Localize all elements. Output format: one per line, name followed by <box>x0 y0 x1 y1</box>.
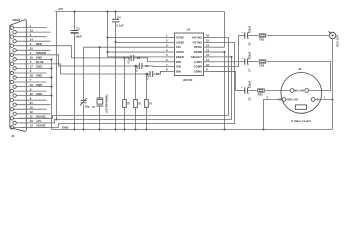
svg-text:RED: RED <box>36 42 42 46</box>
wire +5V to DPOS <box>214 12 225 48</box>
U1 pin 1 STND <box>165 34 184 40</box>
U1 pin 3 FIN <box>165 43 181 49</box>
J2 key slot <box>296 105 307 109</box>
capacitor C8 220uF chroma <box>240 80 251 100</box>
svg-text:CRMA: CRMA <box>194 69 202 73</box>
J1 pin 4 GREEN <box>10 51 48 56</box>
svg-text:GND LUM: GND LUM <box>287 99 298 102</box>
svg-text:DPOS: DPOS <box>194 45 202 49</box>
wire GREEN to U1 <box>142 65 165 68</box>
J2 pin 2 gnd <box>282 98 286 102</box>
wire FIN to crystal <box>84 46 165 48</box>
wire COMP output <box>214 36 241 67</box>
svg-text:AGND: AGND <box>176 40 184 44</box>
connector J2 S-Video shell <box>281 73 322 114</box>
wire RED input <box>49 46 132 58</box>
junction SELECT bend <box>231 56 233 58</box>
J1 pin 9 <box>10 96 46 102</box>
svg-text:220uF: 220uF <box>249 25 252 33</box>
junction GND row 7 <box>51 58 53 60</box>
svg-text:RCA OUT: RCA OUT <box>335 34 339 46</box>
svg-text:S-Video (4-pin): S-Video (4-pin) <box>291 119 311 123</box>
svg-text:ENCD: ENCD <box>176 55 184 59</box>
wire GND bus <box>52 129 333 131</box>
svg-text:C1: C1 <box>76 26 80 30</box>
J1 pin 8 <box>10 87 46 92</box>
svg-text:0.1uF: 0.1uF <box>117 24 125 28</box>
junction C4 top <box>115 11 117 13</box>
J2 pin 4 chroma <box>290 89 294 93</box>
wire +5V riser from pin 23 <box>56 12 58 120</box>
svg-text:HSYNC: HSYNC <box>192 36 202 40</box>
capacitor C5 0.1uF <box>146 71 160 80</box>
junction GND row 15 <box>51 95 53 97</box>
U1 pin 10 COMP <box>194 63 214 69</box>
wire BLUE to U1 <box>153 71 165 74</box>
junction APOS feed <box>107 51 109 53</box>
wire J2 gnd pin 2 <box>264 100 283 130</box>
svg-text:J1: J1 <box>11 134 15 138</box>
wire trimmer column <box>83 47 85 129</box>
trimmer capacitor CT 30p <box>80 98 96 109</box>
U1 pin 4 APOS <box>165 48 185 54</box>
connector J1 DB23 outline <box>10 20 27 132</box>
svg-text:BLUE: BLUE <box>36 60 44 64</box>
svg-text:FB3: FB3 <box>258 93 263 97</box>
junction +5V riser <box>56 119 58 121</box>
resistor R2 75R <box>134 66 142 130</box>
svg-text:VSYNC: VSYNC <box>192 40 202 44</box>
J1 pin 19 GND <box>13 83 49 89</box>
svg-text:17: 17 <box>30 65 34 69</box>
svg-text:GND: GND <box>36 83 42 87</box>
junction crystal ground <box>99 129 101 131</box>
junction FIN <box>99 46 101 48</box>
resistor R3 75R <box>145 74 153 130</box>
svg-text:STND: STND <box>176 36 184 40</box>
capacitor C6 220uF composite <box>240 25 251 45</box>
svg-text:10: 10 <box>206 63 210 67</box>
wire VSYNC <box>20 42 235 127</box>
svg-text:GND: GND <box>36 65 42 69</box>
svg-text:23: 23 <box>30 119 34 123</box>
svg-text:10uF: 10uF <box>75 34 82 38</box>
U1 pin 5 ENCD <box>165 53 184 59</box>
svg-text:13: 13 <box>30 28 34 32</box>
J1 pin 21 <box>13 101 51 106</box>
wire GND pin row 13 <box>49 86 52 88</box>
J1 pin 16 GND <box>13 56 49 62</box>
wire APOS to +5V <box>108 51 165 53</box>
wire luma to S-Video <box>249 61 258 63</box>
svg-text:19: 19 <box>30 83 34 87</box>
wire SELECT to +5V row <box>20 57 232 123</box>
svg-text:14: 14 <box>206 43 210 47</box>
wire +5V top rail <box>55 11 224 13</box>
U1 pin 11 LUMA <box>194 58 214 64</box>
svg-text:GIN: GIN <box>176 65 181 69</box>
svg-text:COMP: COMP <box>194 65 203 69</box>
junction GREEN terminator <box>135 65 137 67</box>
svg-text:22: 22 <box>30 110 34 114</box>
J2 pin 1 gnd <box>311 98 315 102</box>
J1 pin 2 <box>10 33 46 39</box>
J1 pin 18 GND <box>13 74 49 80</box>
U1 pin 8 BIN <box>165 68 181 74</box>
junction R1 ground <box>124 129 126 131</box>
svg-text:VSYNC: VSYNC <box>36 124 46 128</box>
J1 pin 1 <box>10 24 46 30</box>
junction C4 bottom <box>115 129 117 131</box>
junction R3 ground <box>146 129 148 131</box>
wire ENCD to +5V <box>108 56 165 58</box>
svg-text:12: 12 <box>30 124 34 128</box>
U1 pin 9 CRMA <box>194 68 214 74</box>
J1 pin 7 <box>10 78 46 83</box>
svg-text:21: 21 <box>30 101 34 105</box>
junction C4 AGND row <box>115 41 117 43</box>
svg-text:20: 20 <box>30 92 34 96</box>
wire GND riser from connector <box>51 59 53 129</box>
svg-text:0.1uF: 0.1uF <box>146 72 150 79</box>
wire RED to U1 <box>134 58 165 62</box>
junction C1 top <box>74 11 76 13</box>
svg-text:16: 16 <box>206 34 210 38</box>
ferrite bead FB3 <box>258 89 265 97</box>
svg-text:FB1: FB1 <box>259 38 264 42</box>
wire AGND to ground <box>116 41 165 43</box>
J1 pin 6 <box>10 69 46 75</box>
svg-text:30p: 30p <box>85 106 90 109</box>
U1 pin 14 DPOS <box>194 43 213 49</box>
svg-text:15: 15 <box>206 39 210 43</box>
svg-text:0.1uF: 0.1uF <box>127 56 131 63</box>
svg-text:+5V: +5V <box>36 119 41 123</box>
svg-text:12: 12 <box>206 53 210 57</box>
wire J2 gnd pin 1 <box>315 99 333 101</box>
ferrite bead FB2 <box>259 60 266 68</box>
svg-text:MA LUM: MA LUM <box>294 89 303 92</box>
svg-text:10: 10 <box>30 105 34 109</box>
svg-text:GREEN: GREEN <box>36 51 46 55</box>
junction trimmer ground <box>83 129 85 131</box>
wire crystal column <box>99 47 101 98</box>
junction GND row 11 <box>51 77 53 79</box>
U1 pin 13 DGND <box>194 48 214 54</box>
svg-text:DGND: DGND <box>194 50 202 54</box>
capacitor C2 0.1uF <box>127 55 141 64</box>
J1 pin 10 <box>10 105 46 110</box>
crystal X1 3.579545MHz <box>97 94 109 130</box>
junction DGND rail <box>224 129 226 131</box>
capacitor C1 10uF <box>71 12 83 130</box>
junction DGND bend <box>224 51 226 53</box>
svg-text:LUMA: LUMA <box>194 60 202 64</box>
svg-text:220uF: 220uF <box>249 51 252 59</box>
junction STND feed <box>107 37 109 39</box>
svg-text:0.1uF: 0.1uF <box>135 64 139 71</box>
wire +5V feed column <box>107 12 109 57</box>
J1 pin 23 +5V <box>13 119 49 125</box>
wire RCA shield <box>332 39 334 129</box>
connector RCA jack <box>329 31 340 46</box>
svg-text:SELECT: SELECT <box>191 55 202 59</box>
svg-text:+5V: +5V <box>58 7 63 11</box>
capacitor C4 0.1uF <box>112 12 124 130</box>
wire HSYNC <box>20 38 229 119</box>
svg-text:U1: U1 <box>187 28 191 32</box>
svg-text:C4: C4 <box>117 15 121 19</box>
J1 pin 13 <box>13 28 51 33</box>
svg-text:15: 15 <box>30 46 34 50</box>
svg-text:BIN: BIN <box>176 69 181 73</box>
ferrite bead FB1 <box>259 34 266 42</box>
J1 pin 5 BLUE <box>10 60 48 66</box>
J1 pin 17 GND <box>13 65 49 70</box>
wire GREEN input <box>49 55 140 66</box>
svg-text:GND: GND <box>36 74 42 78</box>
U1 pin 12 SELECT <box>191 53 214 59</box>
wire to RCA jack <box>249 35 258 37</box>
svg-text:GND: GND <box>36 56 42 60</box>
wire BLUE input <box>49 64 151 74</box>
junction feed rail <box>107 11 109 13</box>
J1 pin 3 RED <box>10 42 48 47</box>
J1 pin 12 VSYNC <box>10 124 48 130</box>
junction RED terminator <box>124 57 126 59</box>
svg-text:AD724: AD724 <box>183 78 193 82</box>
svg-text:16: 16 <box>30 56 34 60</box>
capacitor C7 220uF luma <box>240 51 251 71</box>
op-amp U1 AD724 body <box>175 33 204 76</box>
wire STND to +5V <box>108 37 165 39</box>
J1 pin 20 GND <box>13 92 49 97</box>
capacitor C3 0.1uF <box>135 63 149 72</box>
J2 pin 3 luma <box>305 89 309 93</box>
svg-text:GND: GND <box>62 126 68 130</box>
svg-text:220uF: 220uF <box>249 80 252 88</box>
svg-text:3.579545MHz: 3.579545MHz <box>105 94 109 113</box>
J1 pin 22 <box>13 110 51 116</box>
svg-text:APOS: APOS <box>176 50 184 54</box>
wire GND pin row 15 <box>49 95 52 97</box>
junction GND row 13 <box>51 86 53 88</box>
wire GND pin row 7 <box>49 58 52 60</box>
wire LUMA output <box>214 61 241 63</box>
junction BLUE terminator <box>146 73 148 75</box>
svg-text:13: 13 <box>206 48 210 52</box>
svg-text:J2: J2 <box>298 67 302 71</box>
svg-text:GND: GND <box>36 92 42 96</box>
wire CRMA output <box>214 71 241 90</box>
svg-text:11: 11 <box>206 58 209 62</box>
junction R2 ground <box>135 129 137 131</box>
wire GND pin row 11 <box>49 77 52 79</box>
U1 pin 7 GIN <box>165 63 181 69</box>
J1 pin 15 <box>13 46 51 52</box>
power symbol +5V <box>58 7 63 11</box>
wire GND pin row 9 <box>49 67 52 69</box>
U1 pin 16 HSYNC <box>192 34 213 40</box>
U1 pin 6 RIN <box>165 58 181 64</box>
junction C1 bottom <box>74 129 76 131</box>
svg-text:DB23: DB23 <box>13 18 21 22</box>
junction J2 gnd rail <box>263 129 265 131</box>
wire DGND to ground <box>214 52 225 129</box>
U1 pin 2 AGND <box>165 39 185 45</box>
junction GND row 9 <box>51 67 53 69</box>
J1 pin 11 HSYNC <box>10 115 48 120</box>
svg-text:FIN: FIN <box>176 45 181 49</box>
J1 pin 14 <box>13 37 51 42</box>
wire chroma to S-Video <box>249 90 256 92</box>
svg-text:14: 14 <box>30 37 34 41</box>
junction pin1 shield <box>332 99 334 101</box>
svg-text:RIN: RIN <box>176 60 181 64</box>
svg-text:18: 18 <box>30 74 34 78</box>
resistor R1 75R <box>123 58 131 130</box>
U1 pin 15 VSYNC <box>192 39 213 45</box>
svg-text:FB2: FB2 <box>259 64 264 68</box>
